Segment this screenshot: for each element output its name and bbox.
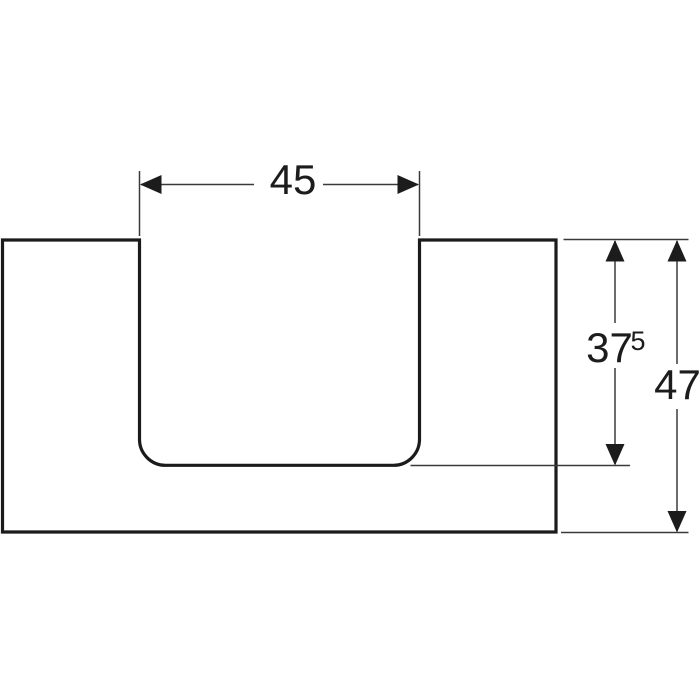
svg-text:37: 37 (586, 324, 633, 371)
arrow left (45) (140, 175, 162, 194)
arrow right (45) (398, 175, 420, 194)
dimension line 47 upper segment (676, 241, 678, 364)
extension line middle (cutout depth 37.5) (411, 465, 631, 467)
dimension line 45 right segment (323, 184, 418, 186)
panel outline with U-shaped cutout (3, 240, 557, 532)
dimension line 45 left segment (141, 184, 254, 186)
extension line top right (47/37.5 origin) (564, 239, 689, 241)
svg-text:47: 47 (654, 361, 700, 408)
arrow up (37.5) (606, 240, 625, 262)
arrow down (47) (668, 511, 687, 533)
extension line right (45) (419, 171, 421, 236)
extension line bottom (47) (561, 532, 689, 534)
dimension line 37.5 upper segment (614, 241, 616, 323)
arrow down (37.5) (606, 444, 625, 466)
extension line left (45) (139, 171, 141, 236)
svg-text:45: 45 (270, 156, 317, 203)
arrow up (47) (668, 240, 687, 262)
dimension line 47 lower segment (676, 409, 678, 531)
svg-text:5: 5 (631, 326, 646, 356)
dimension line 37.5 lower segment (614, 368, 616, 464)
